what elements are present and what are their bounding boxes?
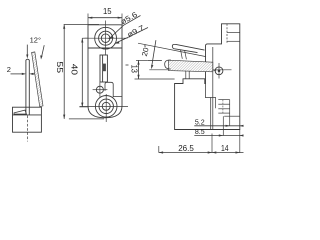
right view: long pivot horizontal centerline xyxy=(149,69,231,71)
right view: tab hidden hole line (dashed vertical) xyxy=(226,24,228,44)
dimension 40: dimension line with arrows xyxy=(81,38,83,107)
left view: contact wedge xyxy=(14,110,27,114)
middle view: top hole middle circle (dia 5.6) xyxy=(99,31,113,45)
svg-text:5.2: 5.2 xyxy=(195,117,205,126)
middle view: slot inner line xyxy=(102,55,104,82)
dimension 12 deg: right arm (slanted) with arrow xyxy=(42,45,44,56)
svg-text:40: 40 xyxy=(70,64,80,76)
middle view: top hole inner circle xyxy=(101,34,110,43)
right edge extension down to baseline xyxy=(239,130,241,154)
dimension 20 deg: slanted line with arrow xyxy=(152,40,156,66)
middle view: rounded tab right of cross hole xyxy=(105,82,122,96)
svg-text:14: 14 xyxy=(221,143,229,153)
middle view: slot rectangle xyxy=(100,55,107,82)
svg-text:12°: 12° xyxy=(30,36,41,45)
svg-text:26.5: 26.5 xyxy=(178,143,194,153)
middle view: top hole outer circle (dia 9.7) xyxy=(95,27,117,49)
middle view: plate outline with round bottom xyxy=(88,25,122,118)
svg-text:8.5: 8.5 xyxy=(195,127,205,136)
dimension 55: extension line bottom xyxy=(69,118,104,120)
leader line (11 deg) across lever area xyxy=(138,43,206,56)
dimension 2: lines and arrows xyxy=(11,73,25,75)
dimension 40: extension line bottom xyxy=(79,106,88,108)
right view: pivot hole vertical centerline xyxy=(218,63,220,79)
svg-text:2: 2 xyxy=(7,65,11,74)
right view: tab hole top line xyxy=(227,32,240,34)
middle view: top hole horizontal centerline xyxy=(85,37,128,39)
middle view: bottom hole outer circle xyxy=(95,96,117,118)
dimension 55: dimension line with arrows xyxy=(63,25,65,119)
leader segment to pivot hole xyxy=(193,62,216,71)
right view: body outline (L-shaped side profile) xyxy=(175,24,240,130)
dimension 55: extension line top xyxy=(64,24,99,26)
dash left of label 13 xyxy=(126,64,129,66)
dimension 40: extension line top xyxy=(82,37,88,39)
dimension 12 deg: left arm (vertical) with arrow xyxy=(26,45,28,55)
dimension 13: bottom extension line xyxy=(135,78,175,80)
svg-text:55: 55 xyxy=(55,61,65,73)
left view: lever in released position (hatched strip) xyxy=(32,52,43,107)
right view: lever band (hatched cross-section) xyxy=(169,60,213,72)
svg-text:13: 13 xyxy=(129,65,138,74)
middle view: small hole vertical centerline xyxy=(99,82,101,96)
middle view: bottom hole inner circle xyxy=(102,102,110,110)
left view: body rectangle xyxy=(13,107,42,132)
right view: terminal block internal step xyxy=(205,84,210,130)
middle view: top hole vertical centerline xyxy=(105,21,107,56)
middle view: bottom hole middle circle xyxy=(99,99,113,113)
middle view: bottom hole vertical centerline xyxy=(105,94,107,122)
middle view: bottom hole horizontal centerline xyxy=(80,106,129,108)
dimension 15: dimension line with arrows xyxy=(88,17,122,19)
middle view: feature line xyxy=(88,47,122,49)
svg-text:15: 15 xyxy=(103,6,112,16)
dimension 13: top extension line xyxy=(136,59,148,61)
dimension 15: extension lines xyxy=(87,14,89,25)
right view: roller flag top blade xyxy=(172,44,204,52)
dimension 20 deg: reference line xyxy=(148,59,162,61)
left view: body split line xyxy=(13,114,42,116)
right view: terminal ladder rungs xyxy=(218,99,229,101)
dimension 26.5 and 14: dimension line xyxy=(159,152,244,154)
right view: terminal ladder verticals xyxy=(229,100,231,126)
dimension 26.5/14: extension verticals xyxy=(158,146,160,153)
left view: plunger hidden line (dashed) xyxy=(27,116,29,142)
right view: flag stem lines xyxy=(181,50,183,59)
dimension 13: dimension line with arrows xyxy=(138,60,140,79)
middle view: small hole horizontal centerline xyxy=(93,89,108,91)
middle view: small cross hole circle xyxy=(96,86,103,93)
dimension 5.2: line with outside arrows xyxy=(194,125,243,127)
left view: plunger pin xyxy=(26,59,29,115)
middle view: slot inner contact block xyxy=(103,64,106,72)
right view: plunger lines below band xyxy=(185,71,187,79)
dimension 8.5: extension vertical xyxy=(222,116,224,135)
right view: tab hole bottom line xyxy=(227,40,240,42)
dimension 8.5: line with outside arrows xyxy=(194,135,243,137)
leader for dia 9.7: underline and arrow to outer circle xyxy=(115,28,149,44)
right view: lever band left curl xyxy=(165,60,171,69)
right view: pivot hole xyxy=(215,67,223,75)
right view: case parting line xyxy=(212,47,214,130)
leader for dia 5.6: underline and arrow to middle circle xyxy=(109,16,141,40)
